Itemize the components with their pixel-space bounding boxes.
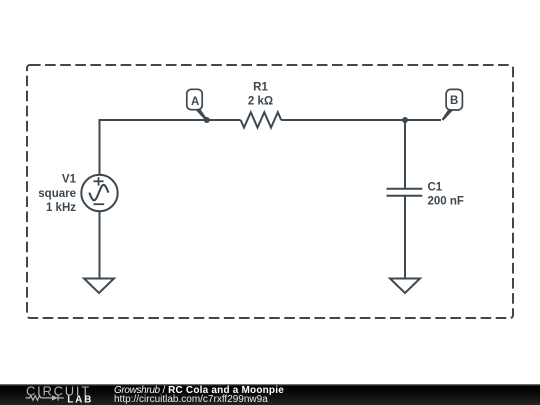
svg-text:A: A bbox=[191, 96, 199, 108]
schematic boundary dashed frame bbox=[27, 65, 513, 318]
capacitor C1 bbox=[387, 189, 423, 196]
node B flag pointer bbox=[442, 104, 456, 121]
node A flag pointer bbox=[194, 104, 208, 121]
svg-text:200 nF: 200 nF bbox=[428, 195, 464, 207]
junction dot at node A bbox=[204, 117, 210, 123]
label V1 designator bbox=[62, 174, 77, 186]
wire: V1 bottom terminal to ground bbox=[99, 211, 101, 279]
label V1 type square bbox=[38, 188, 76, 200]
svg-text:V1: V1 bbox=[62, 174, 77, 186]
wire: V1 top to horizontal rail bbox=[100, 120, 209, 175]
logo circuit symbol: resistor and diode bbox=[26, 395, 64, 400]
resistor R1 bbox=[241, 112, 282, 127]
label R1 value 2 kOhm bbox=[248, 95, 273, 107]
ground symbol below V1 bbox=[84, 279, 114, 294]
wire: resistor R1 right terminal to node B bbox=[281, 119, 441, 121]
node A flag bbox=[187, 89, 202, 109]
svg-text:square: square bbox=[38, 188, 76, 200]
wire: node B junction down to capacitor C1 top plate bbox=[404, 120, 406, 189]
svg-text:C1: C1 bbox=[428, 181, 443, 193]
ground symbol below C1 bbox=[390, 279, 420, 294]
label V1 frequency 1 kHz bbox=[46, 202, 76, 214]
node B flag bbox=[446, 89, 462, 110]
voltage source V1 bbox=[81, 175, 117, 211]
svg-text:2 kΩ: 2 kΩ bbox=[248, 95, 273, 107]
CircuitLab logo bbox=[0, 384, 100, 405]
credit text bbox=[114, 386, 284, 405]
junction dot at node B bbox=[402, 117, 408, 123]
V1 plus polarity mark bbox=[93, 177, 103, 185]
label R1 designator bbox=[253, 82, 268, 94]
label C1 value 200 nF bbox=[428, 195, 464, 207]
footer black bar bbox=[0, 384, 540, 405]
svg-text:LAB: LAB bbox=[67, 395, 93, 405]
label C1 designator bbox=[428, 181, 443, 193]
wire: capacitor C1 bottom plate to ground bbox=[404, 196, 406, 279]
logo wordmark CIRCUIT bbox=[26, 384, 91, 399]
V1 minus polarity mark bbox=[93, 203, 104, 205]
svg-text:B: B bbox=[450, 95, 458, 107]
logo wordmark LAB bbox=[67, 395, 93, 405]
wire: node A to resistor R1 left terminal bbox=[206, 119, 241, 121]
svg-text:1 kHz: 1 kHz bbox=[46, 202, 76, 214]
svg-text:R1: R1 bbox=[253, 82, 268, 94]
